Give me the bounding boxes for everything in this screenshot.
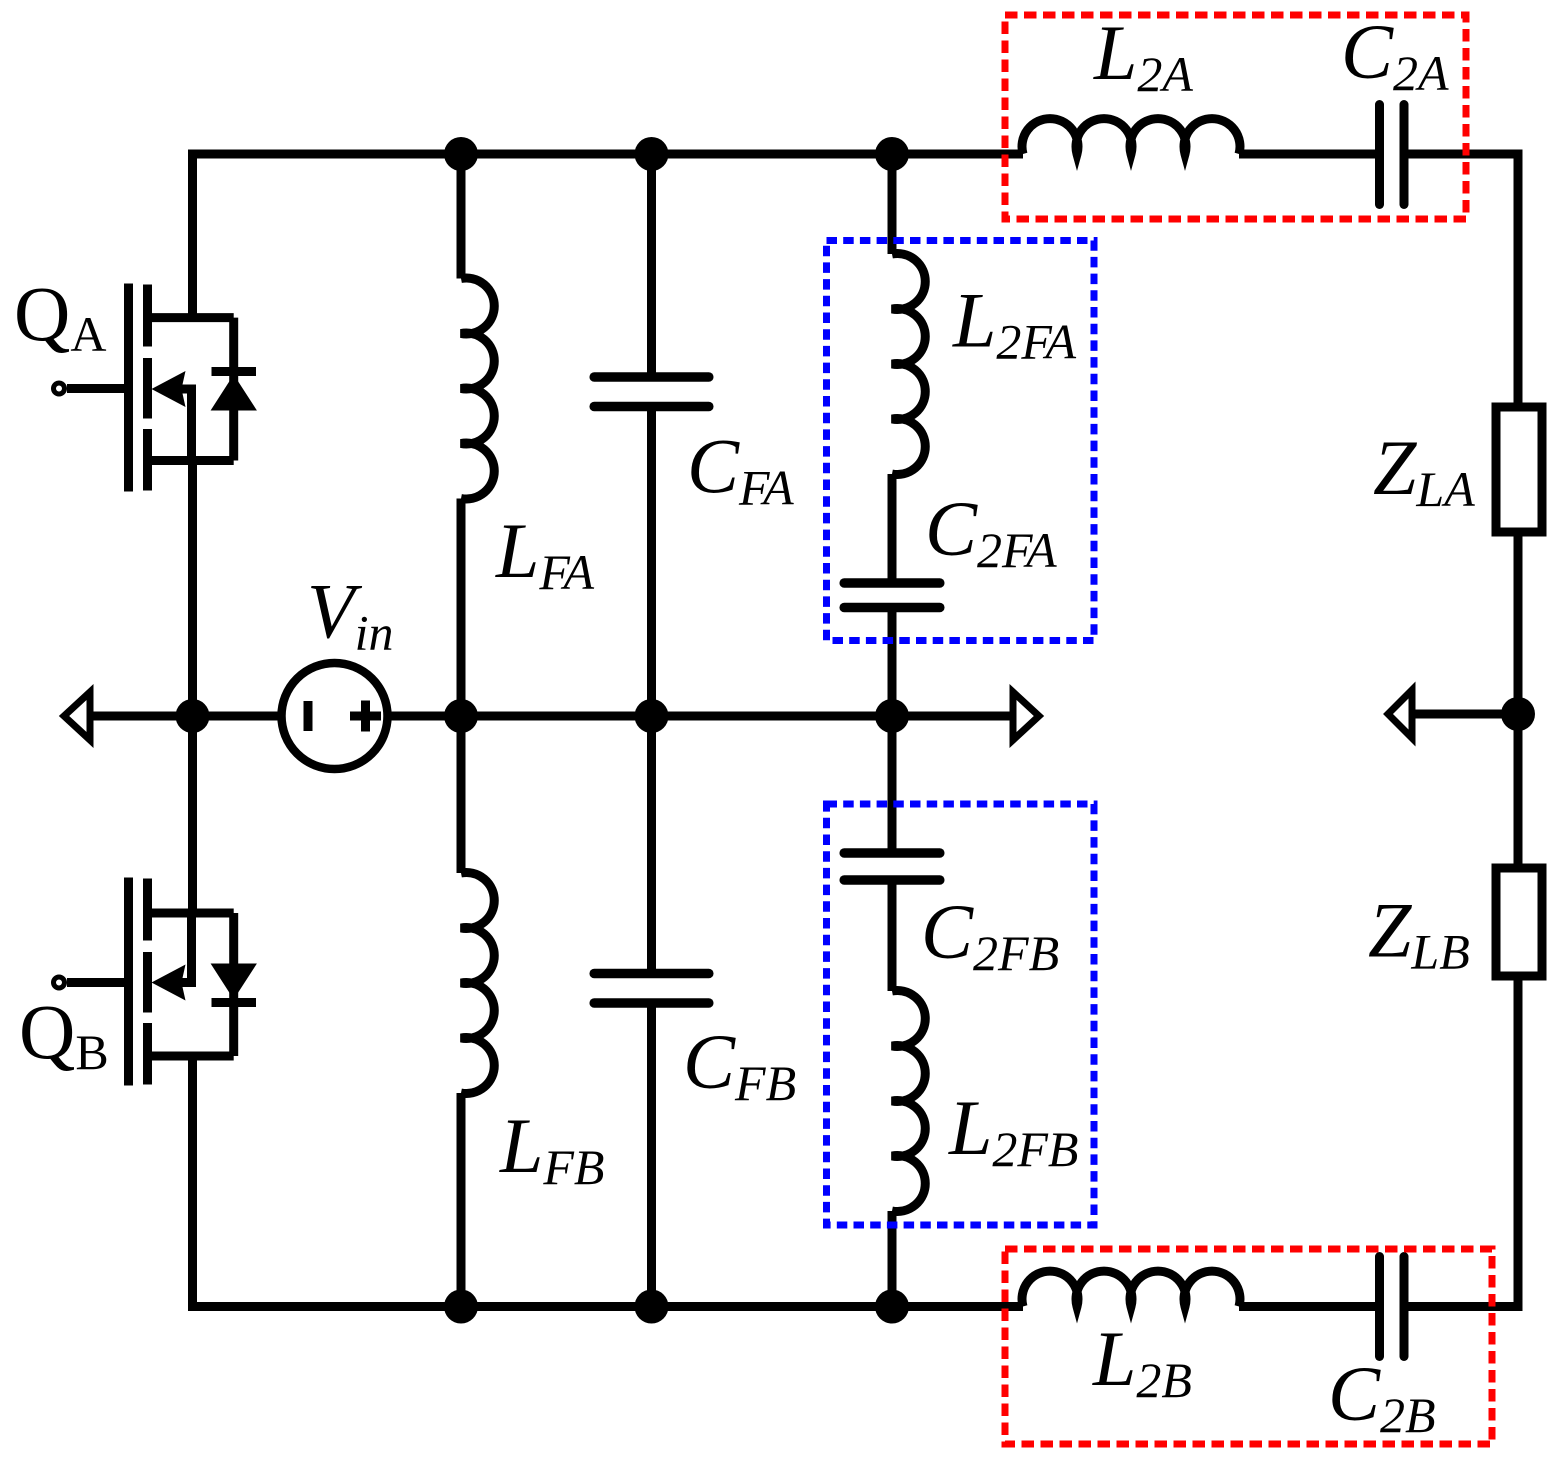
wire top rail and left drain vertical xyxy=(193,154,1024,318)
dashed box blue tank B xyxy=(827,804,1095,1225)
wire right rail between ZLA and ZLB xyxy=(1514,536,1523,864)
svg-text:ZLB: ZLB xyxy=(1368,887,1470,980)
svg-text:L2A: L2A xyxy=(1093,9,1193,102)
svg-text:LFA: LFA xyxy=(495,507,594,600)
svg-text:CFA: CFA xyxy=(687,423,794,516)
node dot top LFA xyxy=(444,137,478,171)
node dot bottom LFB xyxy=(444,1290,478,1324)
port arrow left xyxy=(64,692,90,740)
inductor LFB xyxy=(461,716,494,1307)
transistor QB xyxy=(54,878,257,1086)
wire top-right corner down to ZLA xyxy=(1404,154,1518,403)
capacitor C2FB xyxy=(844,716,940,880)
svg-text:ZLA: ZLA xyxy=(1373,424,1475,517)
svg-text:C2B: C2B xyxy=(1328,1350,1436,1443)
svg-text:C2A: C2A xyxy=(1341,8,1449,101)
wire mid rail left with port stub xyxy=(90,712,278,721)
svg-text:C2FB: C2FB xyxy=(921,888,1059,981)
inductor L2FA xyxy=(892,154,925,583)
node dot mid LFA xyxy=(444,699,478,733)
inductor L2B xyxy=(1022,1271,1240,1306)
port arrow right xyxy=(1388,690,1412,738)
svg-text:C2FA: C2FA xyxy=(925,485,1057,578)
node dot bottom L2FB xyxy=(875,1290,909,1324)
node dot right rail xyxy=(1501,697,1535,731)
capacitor C2A xyxy=(1380,105,1405,205)
capacitor C2B xyxy=(1380,1257,1405,1357)
svg-text:QB: QB xyxy=(19,988,109,1080)
wire top rail right segment after L2A xyxy=(1239,150,1375,159)
svg-text:L2B: L2B xyxy=(1092,1315,1192,1408)
svg-text:Vin: Vin xyxy=(307,568,394,661)
svg-text:CFB: CFB xyxy=(683,1018,796,1111)
node dot mid-left xyxy=(176,699,210,733)
node dot bottom CFB xyxy=(635,1290,669,1324)
svg-text:LFB: LFB xyxy=(499,1102,604,1195)
voltage source Vin xyxy=(282,663,388,769)
node dot mid L2FA xyxy=(875,699,909,733)
svg-text:QA: QA xyxy=(14,270,106,362)
port arrow center xyxy=(1013,692,1039,740)
inductor L2FB xyxy=(892,880,925,1307)
capacitor C2FA xyxy=(844,583,940,716)
wire mid rail from Vin to center arrow xyxy=(391,712,1013,721)
impedance ZLB xyxy=(1496,868,1542,976)
wire bottom rail segment between C2B and L2B xyxy=(1239,1302,1375,1311)
inductor LFA xyxy=(461,154,494,716)
capacitor CFB xyxy=(594,716,709,1307)
inductor L2A xyxy=(1022,119,1240,154)
wire bottom rail and left source vertical xyxy=(193,1057,1024,1307)
node dot top L2FA xyxy=(875,137,909,171)
dashed box red branch A xyxy=(1005,15,1466,219)
capacitor CFA xyxy=(594,154,709,716)
impedance ZLA xyxy=(1496,407,1542,532)
wire right mid stub to right rail xyxy=(1412,710,1518,719)
wire left rail center vertical through mid node xyxy=(188,461,197,914)
svg-text:L2FA: L2FA xyxy=(952,277,1076,370)
transistor QA xyxy=(54,284,257,492)
svg-text:L2FB: L2FB xyxy=(948,1084,1078,1177)
node dot mid CFA xyxy=(635,699,669,733)
node dot top CFA xyxy=(635,137,669,171)
wire bottom-right corner from ZLB to C2B xyxy=(1404,980,1518,1307)
dashed box blue tank A xyxy=(827,241,1095,641)
dashed box red branch B xyxy=(1005,1249,1492,1444)
